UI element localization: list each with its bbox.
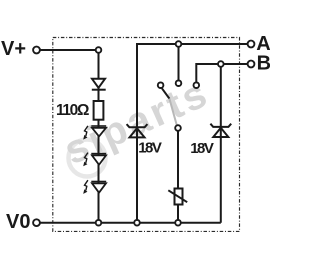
svg-text:V+: V+ (1, 38, 26, 60)
svg-text:18V: 18V (138, 140, 162, 157)
svg-text:B: B (257, 53, 270, 75)
svg-text:110Ω: 110Ω (56, 102, 89, 119)
svg-text:18V: 18V (190, 140, 214, 157)
svg-text:V0: V0 (6, 211, 30, 233)
